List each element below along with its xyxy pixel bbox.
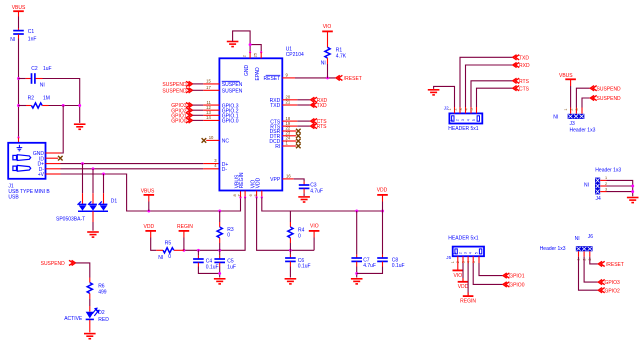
ground (J2) [428,90,440,95]
junction VBUS power symbol tap [147,210,150,213]
wire SUSPEND to U1 [193,83,204,85]
junction D- / D1 [92,167,95,170]
svg-text:VDD: VDD [144,224,155,230]
svg-text:4.7uF: 4.7uF [363,263,376,269]
wire CTS from U1 [297,120,310,122]
pin U1 DCD lead (pin 24) [282,140,296,142]
svg-text:4: 4 [466,119,470,121]
svg-text:REGIN: REGIN [460,298,476,304]
J1 contact glyph upper [13,155,31,161]
svg-text:+V: +V [38,172,45,178]
wire R6 to D2 [89,299,91,306]
wire REGIN rail to C5 [219,250,221,255]
pin J1 VBUS lead [18,138,20,144]
ground (D2) [84,334,96,339]
pin D2 anode lead [89,306,91,312]
net chevron GPIO2 (J6) [598,288,604,293]
svg-text:5: 5 [474,252,478,254]
pin dot U1 VBUS [239,196,241,198]
wire J4.2 to ground column [607,185,633,187]
power symbol REGIN [179,230,190,232]
svg-text:SP0503BA-T: SP0503BA-T [56,216,85,222]
wire rail to R4 [289,211,291,222]
no-connect X on U1 DSR [296,129,301,134]
pin U1 VBUS lead (pin 8) [240,191,242,198]
wire VDD J5 lead [462,278,464,282]
wire GPIO0 to U1 [193,119,204,121]
net chevron TXD (J2) [513,55,519,60]
svg-text:SUSPEN: SUSPEN [222,82,243,88]
wire net VBUS from J1 +V [61,174,241,211]
svg-text:SUSPEND: SUSPEND [162,88,187,94]
wire C5 bottom to ground [219,267,221,278]
pin J2.3 lead [465,107,467,113]
junction R3 bottom / C5 [218,249,221,252]
junction C4 tap [197,249,200,252]
pin C4.1 lead [197,256,199,259]
no-connect X on J1 ID [58,156,63,161]
resistor R3 [217,227,222,238]
svg-text:GPIO0: GPIO0 [171,119,187,125]
J1 shield pin glyph [17,145,23,151]
ground (C6) [285,279,297,284]
svg-text:0.1uF: 0.1uF [392,263,405,269]
junction R2 / USB-GND branch [62,104,65,107]
wire RESET net [295,77,336,79]
svg-text:REGIN: REGIN [177,224,193,230]
wire D1 to ground [92,222,94,231]
pin R4.2 lead [289,238,291,243]
svg-text:GPIO.0: GPIO.0 [222,119,239,125]
svg-text:2: 2 [243,55,247,57]
svg-text:NI: NI [553,115,558,121]
pin U1 SUSPEN lead (pin 15) [203,83,219,85]
pin C2.1 lead [26,78,31,80]
J1 contact glyph lower [13,165,31,171]
svg-text:NI: NI [321,60,326,66]
power symbol VDD left [145,230,156,232]
svg-text:Header 1x3: Header 1x3 [570,128,596,134]
svg-text:HEADER 5x1: HEADER 5x1 [448,126,479,132]
svg-text:3: 3 [605,187,607,191]
capacitor C5 [214,259,225,262]
capacitor C1 [13,31,24,34]
wire VDD rail to C7 [356,211,358,255]
capacitor C6 [285,258,296,261]
pin R2.2 lead [42,105,48,107]
svg-text:2: 2 [455,119,459,121]
net chevron RTS (J2) [513,78,519,83]
svg-text:499: 499 [98,289,107,295]
wire GPIO3 to U1 [193,104,204,106]
svg-text:SUSPEND: SUSPEND [41,261,66,267]
svg-text:NI: NI [40,83,45,89]
resistor R2 [31,103,42,108]
wire net SUSPEND to J3.3 [582,98,590,108]
wire J5.2 to VDD symbol [462,263,464,281]
power symbol VIO [309,230,320,232]
power symbol VBUS [13,10,24,12]
svg-text:/RESET: /RESET [344,76,362,82]
svg-text:10: 10 [209,135,214,140]
svg-text:R5: R5 [165,240,172,246]
pin D1 common lead [92,211,94,222]
connector J2 HEADER 5x1 body [449,113,482,123]
svg-text:4.7K: 4.7K [336,54,347,60]
LED D2 arrows [92,308,99,316]
pin J4.1 lead [600,179,606,181]
pin J3.1 lead [570,108,572,114]
svg-text:17: 17 [206,85,211,90]
pin C1.1 lead [18,28,20,30]
wire R4 to VIO rail [289,243,291,250]
junction +V / D1 [102,173,105,176]
svg-text:GND: GND [244,65,250,77]
pin J2.5 lead [476,107,478,113]
svg-text:1nF: 1nF [28,37,37,43]
net chevron GPIO1 [186,113,192,118]
wire net D- (USB to U1) [61,168,204,170]
ground (C7/C8) [351,279,363,284]
pin D2 cathode lead [89,320,91,333]
wire C8 bottom to C7 bottom [357,267,383,274]
pin U1 GND lead (pin 2) [249,52,251,58]
pin R5.1 lead [156,249,163,251]
svg-text:Header 1x3: Header 1x3 [540,246,566,252]
ground (C4/C5) [214,279,226,284]
no-connect X on U1 DCD [296,139,301,144]
svg-text:25: 25 [254,53,258,57]
svg-text:NI: NI [584,182,589,188]
svg-text:15: 15 [206,79,211,84]
svg-text:C1: C1 [28,29,35,35]
svg-text:NI: NI [158,255,163,261]
resistor R4 [288,227,293,238]
svg-text:GPIO3: GPIO3 [605,280,621,286]
pin J5.4 lead [472,256,474,263]
svg-text:1: 1 [453,252,457,254]
pin U1 RESET lead (pin 9) [282,77,295,79]
wire branch down to J1 GND pin [61,106,64,154]
pin U1 GPIO.1 lead (pin 13) [203,114,219,116]
svg-text:EPAD: EPAD [255,67,261,81]
pin U1 GPIO.2 lead (pin 12) [203,109,219,111]
wire VBUS mid lead [148,195,150,202]
net chevron RTS [311,124,317,129]
svg-text:R2: R2 [28,95,35,101]
connector J4 Header 1x3 body [595,178,600,195]
capacitor C2 [32,73,35,84]
power symbol REGIN (J5.3) [463,295,474,297]
svg-text:J5: J5 [446,255,451,260]
pin J1 GND lead [46,152,61,154]
svg-text:J3: J3 [570,121,576,127]
capacitor C3 [299,185,310,188]
svg-text:Header 1x3: Header 1x3 [595,167,621,173]
svg-text:J6: J6 [588,234,594,240]
net chevron TXD [311,102,317,107]
pin U1 DTR lead (pin 23) [282,135,296,137]
pin R3.2 lead [219,238,221,243]
svg-text:VDD: VDD [377,187,388,193]
pin C8.1 lead [382,255,384,258]
svg-text:RTS: RTS [519,79,530,85]
net chevron SUSPEND [186,88,192,93]
net chevron CTS [311,119,317,124]
wire REGIN net (U1 pin7 down-left) [184,197,245,250]
wire VDD net (U1 pin5 to rail) [262,197,383,211]
junction VDD symbol / C8 [381,210,384,213]
wire VDD left symbol lead [150,231,152,238]
svg-text:2: 2 [458,252,462,254]
power symbol VDD (J5.2) [458,281,469,283]
pin R6.2 lead [89,293,91,299]
svg-text:0: 0 [168,254,171,260]
wire J4.1 to ground column [607,180,633,196]
svg-text:GPIO0: GPIO0 [509,283,525,289]
resistor R1 [325,47,330,58]
D1 common cathode bar [78,210,108,212]
svg-text:VBUS: VBUS [12,5,26,11]
junction C2 tap [17,77,20,80]
wire net TXD to J2.2 [460,57,512,107]
svg-text:VDD: VDD [458,284,469,290]
LED D2 body [86,312,94,320]
wire VIO symbol lead [313,231,315,238]
power symbol VBUS mid [144,194,155,196]
wire +V down to D1.3 [103,174,105,193]
wire REGIN rail to C4 [197,250,199,255]
pin C6.1 lead [289,255,291,258]
resistor R5 [163,248,174,253]
svg-text:D-: D- [222,167,228,173]
svg-text:CTS: CTS [519,86,530,92]
pin D1.2 lead [92,193,94,204]
svg-text:RI: RI [275,144,280,150]
wire REGIN symbol lead [183,231,185,238]
svg-text:2: 2 [453,108,457,110]
junction REGIN symbol tap [182,249,185,252]
svg-text:RTS: RTS [317,124,328,130]
wire net GPIO2 from J6.1 [579,257,598,291]
wire node VBUS to R2 [19,105,27,107]
pin C1.2 lead [18,34,20,38]
net chevron RESET (J6) [598,261,604,266]
pin J1 D- lead [46,168,61,170]
pin J5.3 lead [467,256,469,263]
svg-text:D1: D1 [111,198,118,204]
pin dot J1 VBUS [17,136,19,138]
wire VDD right symbol lead [382,195,384,202]
wire R5 to VDD symbol [151,238,157,251]
svg-text:1: 1 [605,176,607,180]
capacitor C8 [377,258,388,261]
wire GPIO1 to U1 [193,114,204,116]
wire D- down to D1.2 [92,169,94,193]
svg-text:NC: NC [222,139,230,145]
wire net GPIO1 from J5.5 [479,263,503,276]
svg-text:SUSPEND: SUSPEND [597,86,622,92]
svg-text:1uF: 1uF [43,66,52,72]
U1 pin SUSPEN overline [222,80,240,82]
pin dot U1 REGIN [244,196,246,198]
wire SUSPEND to U1 [193,89,204,91]
svg-text:14: 14 [206,115,211,120]
wire R2 to ground column [49,105,80,107]
wire net GPIO0 from J5.4 [473,263,502,284]
wire VBUS symbol lead [18,11,20,16]
svg-text:0: 0 [227,233,230,239]
wire VIO symbol lead / pin R1.1 [327,31,329,47]
wire GPIO2 to U1 [193,109,204,111]
svg-text:1: 1 [451,261,455,263]
svg-text:1: 1 [450,119,454,121]
net chevron GPIO0 [186,118,192,123]
diode D1 element 3 [99,201,108,210]
pin U1 VDD lead (pin 5) [261,191,263,198]
wire R3 to REGIN rail [219,243,221,250]
wire J5.3 to REGIN symbol [467,263,469,295]
net chevron RESET [336,75,342,80]
junction GND/EPAD wire [249,43,252,46]
svg-text:0: 0 [298,233,301,239]
svg-text:VIO: VIO [310,223,319,229]
wire RTS from U1 [297,125,310,127]
svg-text:TXD: TXD [317,103,327,109]
svg-text:NI: NI [575,236,580,242]
svg-text:RXD: RXD [519,63,530,69]
wire VBUS mid to rail [148,202,150,212]
pin R3.1 lead [219,222,221,227]
wire VIO symbol to rail [313,238,315,251]
resistor R6 [87,283,92,294]
pin C3.2 lead [303,189,305,194]
IC U1 CP2104 body [219,58,282,190]
pin U1 VIO lead (pin 6) [256,191,258,198]
wire net RTS to J2.4 [471,81,512,107]
pin U1 D+ lead [203,163,219,165]
wire TXD from U1 [297,104,310,106]
junction R3 top tap [218,210,221,213]
svg-text:VBUS: VBUS [141,188,155,194]
svg-text:1: 1 [448,108,452,110]
pin J4.2 lead [600,185,606,187]
diode D1 element 1 [78,201,87,210]
pin J1 ID lead [46,157,59,159]
power symbol VIO top [322,30,333,32]
svg-text:3: 3 [461,119,465,121]
pin dot U1 VIO [255,196,257,198]
junction C4/C5 ground [218,272,221,275]
wire net SUSPEND to J3.2 [576,88,590,107]
pin J2.4 lead [470,107,472,113]
junction RESET / R1 [326,76,329,79]
ground (J4) [627,198,639,203]
wire C1 down to USB J1 (VBUS net column) [18,39,20,138]
net chevron GPIO2 [186,108,192,113]
svg-text:4.7uF: 4.7uF [310,188,323,194]
junction at ground column [78,104,81,107]
pin U1 VPP lead (pin 16) [282,178,293,180]
U1 pin RESET overline [266,74,281,76]
svg-text:4: 4 [464,108,468,110]
wire net D+ (USB to U1) [61,163,204,165]
net chevron RXD [311,97,317,102]
no-connect X on U1 DTR [296,134,301,139]
svg-text:TXD: TXD [519,55,529,61]
connector J1 USB TYPE MINI B body [8,143,45,179]
pin C2.2 lead [36,78,43,80]
wire net GPIO3 from J6.2 [584,257,598,283]
pin C5.2 lead [219,263,221,267]
svg-text:RESET: RESET [264,76,281,82]
pin C4.2 lead [197,263,199,267]
svg-text:21: 21 [286,100,291,105]
pin U1 CTS lead (pin 18) [282,120,297,122]
svg-text:J4: J4 [596,196,602,202]
pin J2.2 lead [459,107,461,113]
junction R4 bottom / C6 [289,249,292,252]
pin R2.1 lead [26,105,31,107]
pin U1 GPIO.0 lead (pin 14) [203,119,219,121]
net chevron SUSPEND [186,81,192,86]
svg-text:VDD: VDD [256,177,262,188]
connector J5 HEADER 5x1 body [453,247,484,257]
wire net RESET from J6.3 [590,257,598,264]
junction J4.2 tie [631,185,634,188]
pin U1 DSR lead (pin 22) [282,130,296,132]
ground (C3) [298,197,310,202]
svg-text:VPP: VPP [270,177,281,183]
svg-text:CP2104: CP2104 [286,52,304,58]
wire C3 to ground [303,193,305,196]
wire C4 bottom to C5 bottom [198,267,219,274]
pin J1 +V lead [46,173,61,175]
pin U1 D- lead [203,168,219,170]
wire J4.3 to ground column [607,191,633,193]
wire U1 GND/EPAD to ground [233,31,262,52]
svg-text:NI: NI [10,37,15,43]
wire rail to R3 [219,211,221,222]
wire J2.1 to ground [434,86,455,107]
junction R2 tap [17,104,20,107]
connector J3 Header 1x3 body [568,114,585,119]
svg-text:1uF: 1uF [227,264,236,270]
pin D1.1 lead [82,193,84,204]
pin U1 GPIO.3 lead (pin 11) [203,104,219,106]
svg-text:TXD: TXD [270,103,280,109]
pin J1 D+ lead [46,163,61,165]
pin J6.2 lead [583,251,585,256]
wire REGIN J5 lead [467,293,469,297]
svg-text:REGIN: REGIN [239,172,245,188]
pin R1.2 lead [327,58,329,64]
pin dot U1 GND [249,51,251,53]
wire VBUS J3 lead [570,79,572,86]
pin D1.3 lead [103,193,105,204]
capacitor C7 [351,258,362,261]
wire C6 to ground [289,267,291,278]
svg-text:2: 2 [605,182,607,186]
svg-text:USB: USB [8,195,19,201]
pin J5.2 lead [462,256,464,263]
net chevron SUSPEND [69,260,75,265]
power symbol VDD right [377,194,388,196]
junction C7 tap [355,210,358,213]
wire net RXD to J2.3 [466,65,513,107]
pin R6.1 lead [89,278,91,283]
junction C7/C8 ground [355,272,358,275]
